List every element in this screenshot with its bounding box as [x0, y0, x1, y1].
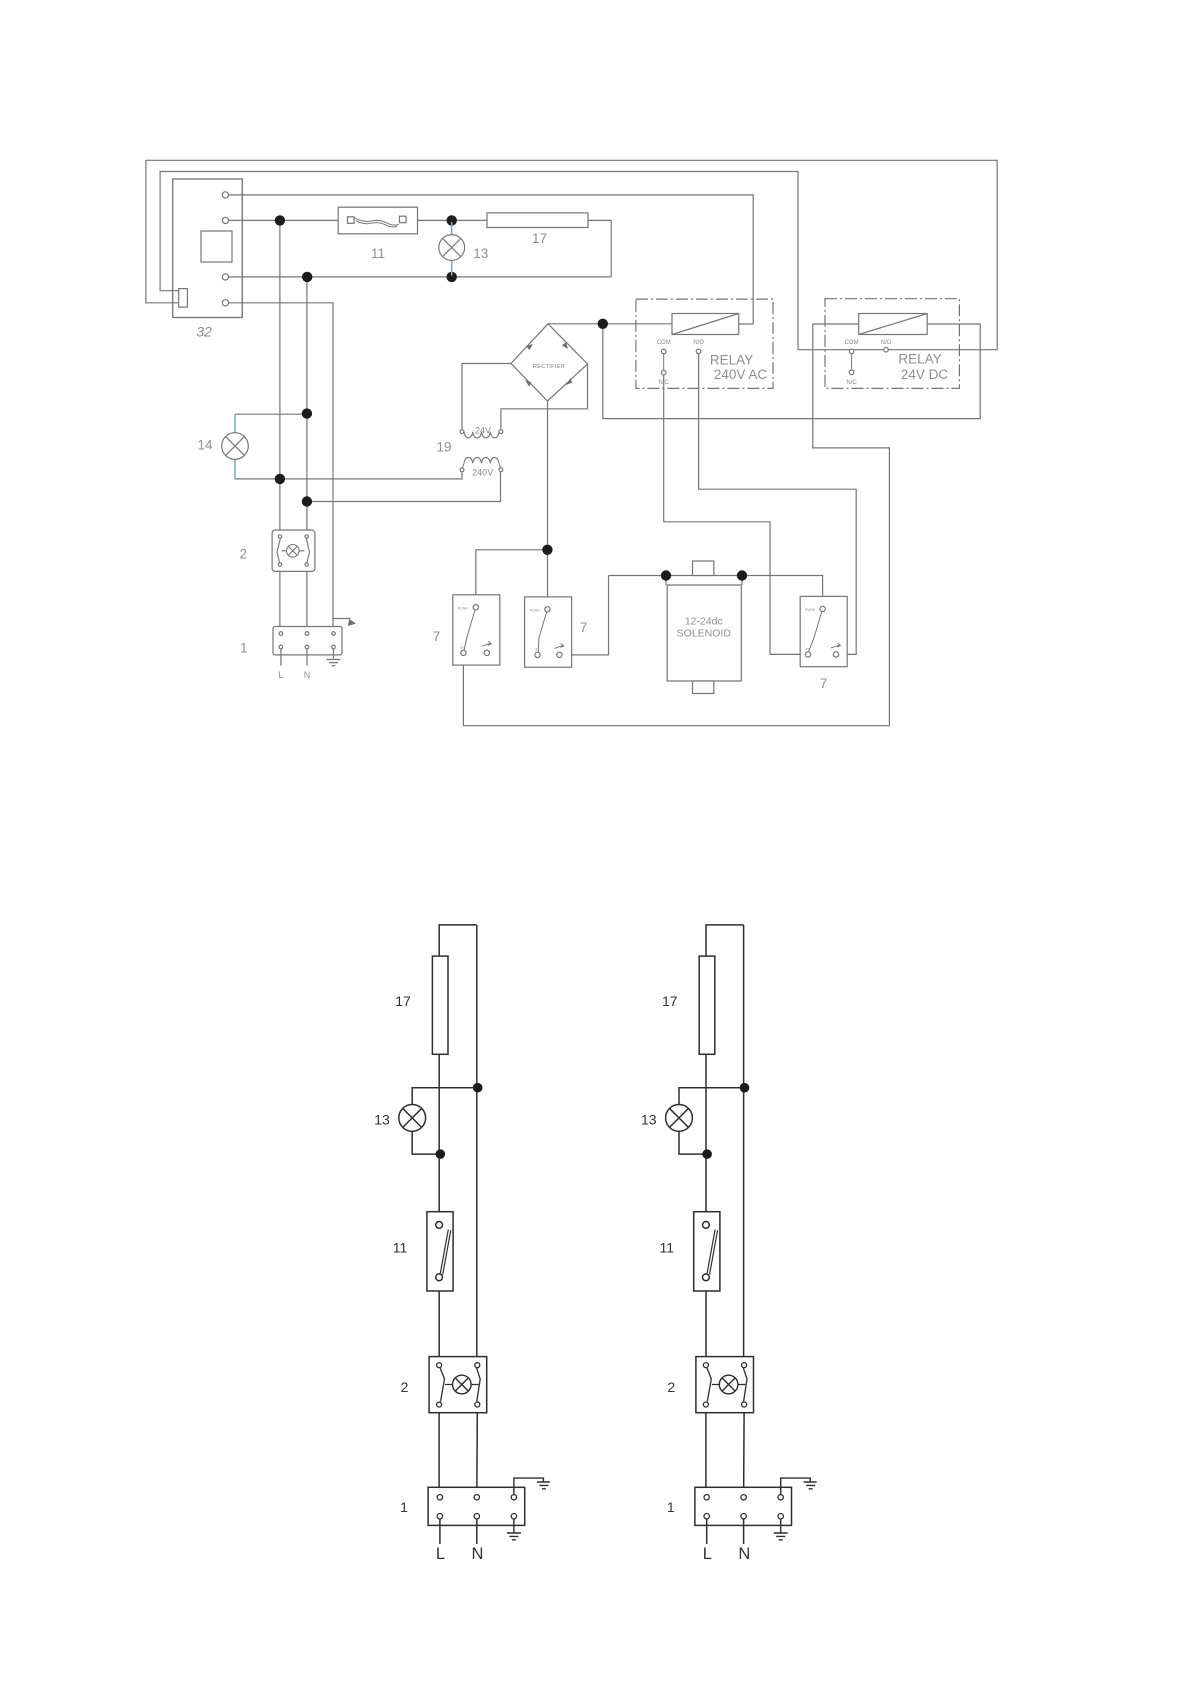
- junction neutral-T3: [302, 272, 312, 282]
- wire lamp 14 top link: [235, 413, 307, 415]
- circuit right: terminal block 1: [695, 1487, 792, 1525]
- svg-text:PUSH: PUSH: [458, 606, 468, 610]
- block 1 lead N: [306, 649, 308, 666]
- svg-text:N/O: N/O: [881, 340, 892, 346]
- junction lamp13 bottom: [447, 272, 457, 282]
- resistor 17: [487, 213, 588, 228]
- svg-text:13: 13: [473, 246, 488, 261]
- svg-text:RECTIFIER: RECTIFIER: [533, 364, 565, 370]
- circuit left: block lead N: [476, 1519, 478, 1544]
- circuit left: wire switch2 to block L: [438, 1413, 440, 1498]
- circuit left: junction L-lamp13: [436, 1149, 446, 1159]
- svg-text:N/C: N/C: [659, 380, 670, 386]
- wire neutral vertical to switch 2 and block N: [306, 277, 308, 634]
- junction switches 7 feed: [542, 545, 552, 555]
- svg-text:1: 1: [400, 1499, 408, 1515]
- circuit right: resistor 17: [699, 956, 715, 1054]
- circuit left: resistor 17: [432, 956, 448, 1054]
- svg-text:2: 2: [401, 1379, 409, 1395]
- circuit right: junction N-lamp13: [740, 1083, 750, 1093]
- switch 2 DPST with neon: [272, 530, 315, 571]
- svg-text:13: 13: [641, 1112, 657, 1128]
- block 1 earth arrow: [333, 618, 351, 620]
- wire rectifier DC+ to relay coils: [548, 323, 672, 325]
- circuit left: wire N vertical: [476, 925, 478, 1365]
- block 1 lead L: [280, 649, 282, 666]
- wire relay-DC coil supply loop: [603, 324, 980, 419]
- wire T4 earth run down to terminal block 1: [229, 303, 334, 634]
- svg-text:12-24dc: 12-24dc: [685, 616, 723, 628]
- box 32 terminal 4: [222, 300, 228, 306]
- block 1 earth lead: [327, 649, 341, 666]
- svg-text:RELAY: RELAY: [898, 352, 941, 367]
- circuit left: wire top bridge: [439, 925, 477, 956]
- circuit left: wire lamp 13 loop top: [412, 1088, 478, 1105]
- svg-text:19: 19: [436, 440, 451, 455]
- svg-text:on: on: [460, 645, 464, 649]
- svg-text:13: 13: [374, 1112, 390, 1128]
- svg-text:RELAY: RELAY: [710, 353, 753, 368]
- solenoid 12-24dc: [666, 576, 742, 586]
- svg-text:11: 11: [393, 1239, 408, 1255]
- circuit left: wire L vertical: [438, 956, 440, 1365]
- relay U2 N/C terminal: [849, 370, 854, 375]
- svg-text:N: N: [738, 1545, 750, 1563]
- switch 7B momentary: [525, 597, 572, 667]
- terminal block 1: [273, 627, 342, 655]
- junction rectifier DC+: [598, 319, 608, 329]
- wire outer frame (net 32-tab to relay N/O): [146, 160, 997, 349]
- lamp 14: [222, 433, 249, 460]
- svg-text:1: 1: [667, 1499, 675, 1515]
- circuit right: wire N vertical: [743, 925, 745, 1365]
- box 32 terminal 3: [222, 274, 228, 280]
- circuit left: wire switch2 to block N: [476, 1413, 479, 1498]
- svg-text:PUSH: PUSH: [805, 608, 815, 612]
- switch 7A momentary: [453, 595, 500, 665]
- svg-text:32: 32: [196, 324, 212, 340]
- wire solenoid bus to switch 7C: [609, 576, 823, 606]
- svg-text:11: 11: [660, 1239, 675, 1255]
- switch 7C momentary: [800, 596, 847, 666]
- wire transformer 24V left to rectifier AC1: [462, 364, 511, 430]
- svg-text:N: N: [304, 670, 311, 680]
- junction lamp14 top: [302, 408, 312, 418]
- circuit left: terminal block 1: [428, 1487, 525, 1525]
- circuit right: junction L-lamp13: [702, 1149, 712, 1159]
- svg-text:L: L: [436, 1545, 445, 1563]
- svg-text:17: 17: [395, 993, 411, 1009]
- relay U1 coil: [672, 314, 739, 335]
- wire relay-AC COM to switch 7C left: [664, 375, 808, 655]
- junction solenoid left: [661, 570, 671, 580]
- svg-text:N/O: N/O: [693, 340, 704, 346]
- svg-text:1: 1: [240, 641, 248, 656]
- junction live-T2: [275, 215, 285, 225]
- circuit right: switch 2: [696, 1357, 754, 1413]
- circuit left: lamp 13: [399, 1105, 426, 1132]
- rectifier bridge: [511, 324, 588, 401]
- svg-text:7: 7: [580, 620, 588, 635]
- svg-text:PUSH: PUSH: [530, 608, 540, 612]
- svg-text:17: 17: [662, 993, 678, 1009]
- circuit right: block earth lead: [774, 1519, 788, 1540]
- box 32 terminal 1: [222, 192, 228, 198]
- fuse 11: [338, 207, 417, 234]
- wire live vertical to switch 2 and block L: [279, 220, 281, 633]
- circuit right: wire L vertical: [705, 956, 707, 1365]
- wire T3 neutral run: [229, 276, 612, 278]
- junction lamp13 top: [447, 215, 457, 225]
- junction 240V return: [302, 496, 312, 506]
- circuit right: wire lamp 13 loop bottom: [679, 1131, 707, 1154]
- svg-text:17: 17: [532, 231, 547, 246]
- circuit left: switch 2: [429, 1357, 487, 1413]
- junction lamp14 bottom: [275, 474, 285, 484]
- wire resistor 17 return loop: [610, 220, 612, 276]
- wire inner frame (net 32-tab): [160, 172, 798, 350]
- wire switch 7B to solenoid bus: [559, 576, 608, 655]
- relay U2 24V DC enclosure: [825, 299, 959, 389]
- wire rectifier DC- down to switches 7: [547, 401, 549, 608]
- circuit right: block lead N: [743, 1519, 745, 1544]
- lamp 14 blue leads: [234, 414, 236, 479]
- wire T2 live to fuse 11, lamp 13, resistor 17: [229, 219, 612, 221]
- wire T1 to relay-AC coil right: [229, 195, 754, 324]
- relay U2 coil: [859, 314, 928, 335]
- svg-text:L: L: [278, 670, 283, 680]
- wire transformer 240V right return: [307, 471, 501, 501]
- circuit left: wire lamp 13 loop bottom: [412, 1131, 440, 1154]
- wire relay-DC N/O bus: [798, 349, 997, 351]
- circuit right: wire lamp 13 loop top: [679, 1088, 745, 1105]
- svg-text:240V: 240V: [472, 467, 493, 477]
- svg-text:2: 2: [239, 547, 247, 562]
- circuit right: wire switch2 to block N: [743, 1413, 746, 1498]
- wire relay-DC coil left to switch 7A: [463, 324, 889, 726]
- lamp 13: [439, 235, 465, 261]
- wire lamp 14 bottom to transformer 240V left: [235, 471, 462, 479]
- lamp 13 blue leads: [451, 222, 453, 276]
- circuit right: block lead L: [706, 1519, 708, 1544]
- circuit left: breaker 11: [427, 1212, 453, 1291]
- svg-text:7: 7: [820, 676, 828, 691]
- transformer 19 240V winding: [464, 457, 499, 463]
- circuit right: breaker 11: [694, 1212, 720, 1291]
- svg-text:COM: COM: [845, 340, 859, 346]
- svg-text:240V AC: 240V AC: [714, 367, 768, 382]
- box 32 terminal 2: [222, 217, 228, 223]
- relay U1 N/C terminal: [661, 370, 666, 375]
- circuit left: block earth lead: [507, 1519, 521, 1540]
- circuit right: wire switch2 to block L: [705, 1413, 707, 1498]
- wire transformer 24V right to rectifier AC2: [501, 364, 588, 430]
- wire relay-AC coil right jumper: [739, 323, 754, 325]
- box 32 mains tab: [179, 289, 188, 308]
- control box 32: [173, 179, 243, 318]
- svg-text:24V: 24V: [475, 426, 491, 436]
- svg-text:L: L: [703, 1545, 712, 1563]
- relay U1 240V AC enclosure: [636, 299, 773, 388]
- circuit left: earth link top: [514, 1478, 550, 1495]
- svg-text:N/C: N/C: [846, 380, 857, 386]
- circuit right: earth link top: [781, 1478, 817, 1495]
- box 32 display square: [201, 231, 232, 262]
- svg-text:on: on: [535, 647, 539, 651]
- svg-text:N: N: [472, 1545, 484, 1563]
- svg-text:on: on: [805, 647, 809, 651]
- wire relay-AC N/O to switch 7C right: [699, 354, 857, 655]
- svg-text:7: 7: [433, 629, 441, 644]
- circuit left: block lead L: [439, 1519, 441, 1544]
- wire switch 7A feed: [476, 550, 548, 605]
- circuit right: lamp 13: [666, 1105, 693, 1132]
- junction solenoid right: [737, 570, 747, 580]
- svg-text:24V DC: 24V DC: [901, 367, 949, 382]
- svg-text:SOLENOID: SOLENOID: [677, 628, 732, 640]
- rectifier diodes: [525, 342, 573, 387]
- svg-text:14: 14: [197, 438, 213, 453]
- svg-text:COM: COM: [657, 340, 671, 346]
- svg-text:2: 2: [667, 1379, 675, 1395]
- circuit left: junction N-lamp13: [473, 1083, 483, 1093]
- circuit right: wire top bridge: [706, 925, 744, 956]
- transformer 19 24V winding: [464, 432, 499, 438]
- svg-text:11: 11: [371, 246, 385, 261]
